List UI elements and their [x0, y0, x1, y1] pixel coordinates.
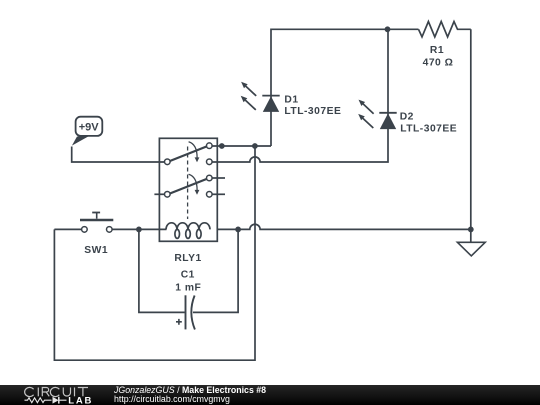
- svg-text:+9V: +9V: [79, 122, 100, 134]
- svg-text:D1: D1: [284, 94, 298, 105]
- svg-text:RLY1: RLY1: [174, 253, 201, 264]
- svg-text:C1: C1: [181, 269, 195, 280]
- svg-text:R1: R1: [430, 45, 444, 56]
- svg-text:1 mF: 1 mF: [175, 282, 201, 293]
- svg-text:470 Ω: 470 Ω: [423, 58, 454, 69]
- svg-text:D2: D2: [400, 112, 414, 123]
- svg-text:SW1: SW1: [84, 245, 108, 256]
- svg-text:LTL-307EE: LTL-307EE: [284, 106, 341, 117]
- svg-text:LAB: LAB: [68, 395, 93, 405]
- svg-text:LTL-307EE: LTL-307EE: [400, 123, 457, 134]
